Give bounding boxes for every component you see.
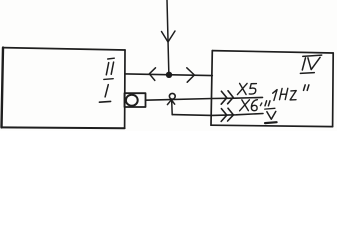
label IV overline	[303, 55, 322, 56]
arrowhead up into tap	[167, 100, 174, 105]
label 1Hz	[273, 88, 297, 100]
label X5	[237, 83, 256, 94]
connector chevrons X6	[221, 109, 227, 122]
label closing high quote	[304, 85, 309, 91]
connector chevrons X5	[221, 91, 227, 104]
stray ink tick	[260, 103, 261, 106]
label II overline	[108, 57, 115, 60]
wire branch down from tap	[171, 101, 174, 115]
wire: horizontal bus between boxes	[125, 74, 212, 76]
label V overline	[265, 107, 275, 110]
junction dot	[166, 72, 172, 78]
label I	[105, 85, 108, 97]
arrowhead left toward box I/II	[149, 68, 155, 81]
tap circle on wire X5	[169, 93, 175, 99]
wire X5 with label underline extension	[146, 97, 263, 100]
label II underline	[104, 78, 113, 81]
label II	[106, 62, 113, 75]
label V	[267, 111, 276, 119]
label X6	[240, 100, 258, 111]
label I underline	[99, 100, 110, 103]
wire: vertical input drop from top	[167, 0, 169, 72]
arrowhead down on input drop	[162, 31, 176, 42]
label IV	[302, 57, 320, 70]
block box IV (right instrument)	[211, 51, 333, 127]
arrowhead right toward box IV	[187, 68, 195, 82]
label IV underline	[300, 72, 314, 75]
label opening low quote	[265, 101, 270, 106]
connector socket on box I/II	[125, 93, 146, 107]
wire X6 with label underline extension	[172, 114, 263, 116]
block box I/II (left instrument)	[2, 48, 126, 129]
label V underline	[265, 121, 277, 124]
